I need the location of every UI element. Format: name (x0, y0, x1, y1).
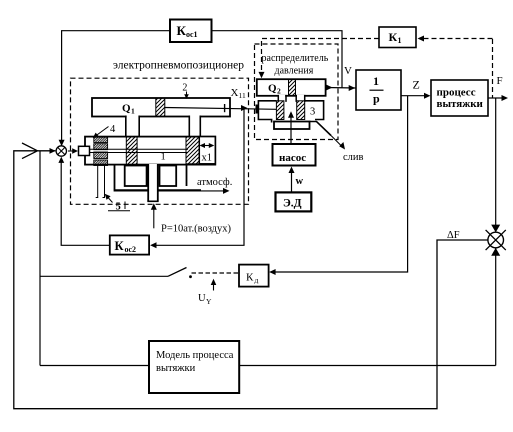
svg-text:x1: x1 (202, 153, 213, 164)
svg-text:1: 1 (131, 107, 135, 116)
coil hatch blocks (94, 137, 108, 142)
atmosphere arrow (201, 190, 225, 192)
svg-text:К: К (177, 23, 187, 38)
wire X11 tap down to Koc2 (152, 109, 245, 246)
svg-text:F: F (497, 75, 503, 87)
big open arrow on input line (22, 143, 38, 159)
svg-text:слив: слив (343, 152, 364, 163)
arrow into summer top (59, 140, 65, 146)
x1 hatch column (186, 137, 199, 164)
lower structure left wall (114, 165, 116, 190)
nozzle input port (79, 146, 90, 155)
svg-text:К: К (389, 30, 398, 44)
svg-text:X: X (231, 87, 239, 99)
thick tick at Q2 entry (255, 105, 258, 114)
wire V tap to Koc1 input (212, 31, 343, 88)
block Koc2 (110, 235, 149, 254)
svg-text:U: U (198, 293, 206, 304)
drain pipe (310, 122, 332, 136)
svg-text:Y: Y (206, 297, 212, 306)
middle hatch column (126, 137, 137, 165)
Q2 bar (257, 79, 326, 96)
flapper bar Q1 (92, 98, 230, 117)
pump feed arrow into spool (290, 116, 292, 145)
positioner body (85, 137, 215, 165)
rod X11 from bar to Q2 spool (165, 108, 277, 110)
svg-text:процесс: процесс (437, 87, 476, 99)
svg-text:3: 3 (310, 107, 315, 118)
central tube (147, 164, 158, 202)
arrow into summer left (50, 148, 56, 154)
svg-text:w: w (296, 176, 304, 187)
Q2 spool body (258, 101, 276, 123)
left chamber (125, 166, 147, 187)
wire Q2 bar to 1/p (V line) (326, 87, 356, 90)
svg-text:атмосф.: атмосф. (197, 177, 232, 188)
block K1 (379, 27, 416, 48)
svg-text:1: 1 (398, 36, 402, 45)
stem left bar-to-body (126, 116, 139, 138)
arrow on rod (241, 105, 248, 111)
wire Koc2 output to summer bottom (61, 159, 110, 245)
block process vytyazhki (431, 80, 488, 116)
dashed box electropneumopositioner (71, 78, 249, 204)
spool rod (90, 149, 189, 152)
label 5 callout (107, 196, 113, 203)
svg-text:Э.Д: Э.Д (283, 198, 302, 210)
wire F down to multiplier (495, 98, 497, 231)
right exhaust wall (186, 165, 188, 186)
block 1/p (356, 70, 401, 110)
arrow summer to nozzle (68, 150, 74, 152)
stem right bar-to-body (189, 116, 200, 138)
wire Z tap to Kd (271, 96, 408, 272)
svg-text:ос1: ос1 (186, 30, 198, 39)
block nasos (273, 144, 316, 166)
wire model input (40, 365, 149, 367)
switch contact dot (189, 275, 192, 278)
svg-text:P=10ат.(воздух): P=10ат.(воздух) (161, 224, 232, 235)
coil wires down (98, 166, 105, 198)
svg-text:p: p (373, 92, 380, 106)
block Kd (239, 265, 269, 287)
right chamber (160, 166, 177, 187)
svg-text:11: 11 (239, 91, 246, 100)
svg-text:2: 2 (277, 87, 281, 96)
svg-text:ΔF: ΔF (447, 230, 460, 241)
wire deltaF loop bottom-left up into summer (14, 151, 488, 409)
summing node left (56, 146, 66, 156)
hatch block in bar (156, 98, 165, 117)
node branch at x40 (39, 151, 41, 366)
svg-text:К: К (246, 272, 254, 284)
wire model output to multiplier (239, 365, 496, 367)
wire dashed switch to Kd (192, 272, 240, 274)
bottom plate (114, 189, 201, 191)
svg-text:К: К (115, 239, 124, 253)
arrow into Q2 bar top (259, 72, 265, 78)
wire multiplier bottom to model line (495, 248, 497, 366)
drain arrow sliv (331, 136, 342, 147)
tick on rod right of bar (224, 104, 226, 112)
svg-text:электропневмопозиционер: электропневмопозиционер (113, 60, 244, 72)
svg-text:насос: насос (279, 152, 306, 164)
wire switch line (40, 275, 168, 277)
block Koc1 (170, 20, 212, 43)
svg-text:Модель процесса: Модель процесса (156, 350, 234, 361)
wire dashed F tap vertical (492, 39, 494, 98)
multiplier node (486, 230, 506, 250)
hatch block in Q2 bar (289, 79, 296, 96)
svg-text:Z: Z (413, 78, 420, 92)
dashed box raspredelitel (255, 44, 339, 140)
svg-text:Q: Q (122, 103, 131, 115)
svg-text:д: д (255, 276, 259, 285)
svg-text:1: 1 (373, 74, 379, 88)
wire F output (488, 97, 504, 99)
svg-text:1: 1 (161, 152, 166, 163)
block ED (276, 192, 312, 211)
x1 white box with arrow (199, 137, 215, 164)
arrow Uy (213, 283, 215, 291)
svg-text:V: V (344, 65, 352, 77)
wire Koc1 output to summing node (62, 31, 170, 143)
svg-text:распределитель: распределитель (262, 53, 329, 64)
svg-text:вытяжки: вытяжки (437, 98, 484, 110)
svg-text:4: 4 (110, 124, 116, 135)
Q2 bottom plate (274, 122, 310, 130)
svg-text:ос2: ос2 (125, 245, 137, 254)
wire dashed K1 output to Q2 bar (262, 39, 380, 73)
switch blade (168, 268, 187, 277)
wire dashed from F tap into K1 (424, 38, 493, 40)
wire Z line (401, 95, 426, 97)
wire ED to nasos (291, 172, 293, 192)
Q2 stems (278, 95, 286, 102)
svg-text:вытяжки: вытяжки (156, 363, 196, 374)
block model processa (149, 341, 239, 393)
svg-text:Q: Q (268, 83, 277, 95)
Q2 hatch columns (276, 101, 284, 120)
P supply arrow (153, 208, 155, 229)
svg-text:давления: давления (275, 66, 314, 77)
